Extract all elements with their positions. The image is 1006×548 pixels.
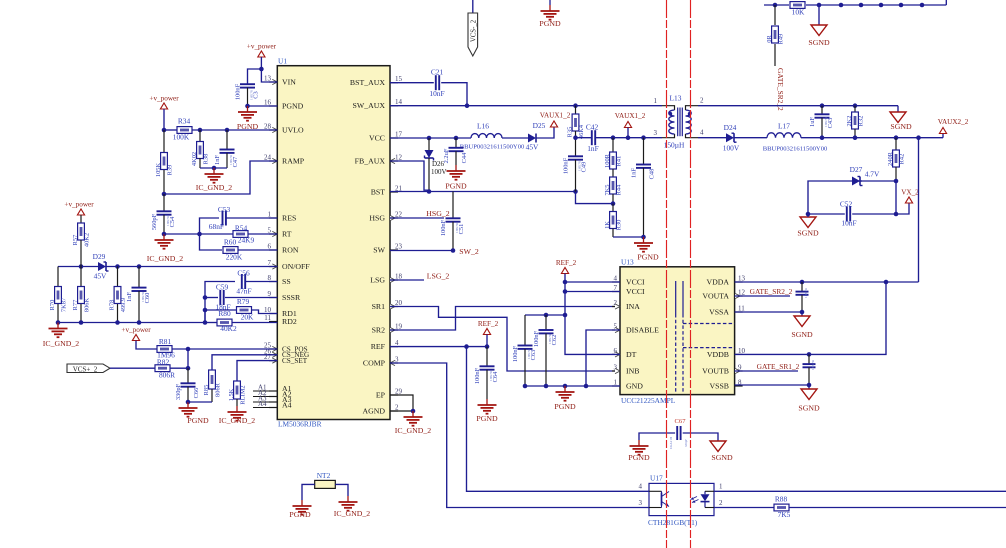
svg-text:IC_GND_2: IC_GND_2 [147,254,183,263]
svg-text:R57: R57 [72,234,79,245]
node C62 top [544,313,549,318]
svg-text:C56: C56 [237,269,250,278]
wire D25-VAUX1 [537,127,555,138]
U1 pin stubs [269,82,398,411]
svg-text:220K: 220K [226,253,243,262]
svg-text:1HX7R: 1HX7R [489,370,493,381]
wire pin2 to SGND [897,106,899,112]
svg-text:2K2: 2K2 [846,115,853,126]
resistor R48 10K [790,2,805,17]
svg-text:RD2: RD2 [282,317,297,326]
svg-text:SR2: SR2 [372,325,386,334]
svg-text:330pF: 330pF [684,439,688,447]
power +v_power (R57) [64,201,94,216]
resistor R42 240R [887,138,906,181]
node sec4 R42 [894,135,899,140]
svg-text:C53: C53 [218,205,231,214]
svg-text:13: 13 [264,75,272,83]
node VDDA branch [884,280,889,285]
node VSSB [807,383,812,388]
svg-text:GATE_SR1_2: GATE_SR1_2 [757,362,800,371]
svg-text:18: 18 [395,273,403,281]
isolation line 1 [666,0,668,548]
ground SGND (ladder) [808,5,830,47]
capacitor C47 1nF [214,130,239,168]
wire RES riser [200,218,220,234]
isolation line 2 [690,0,692,548]
node VDDB C68 [807,352,812,357]
svg-text:C60: C60 [144,293,151,304]
svg-text:INB: INB [626,366,639,375]
svg-text:15: 15 [395,75,403,83]
wire VOUTA stub [735,295,790,297]
svg-text:45V: 45V [94,272,107,281]
svg-text:C66: C66 [193,388,200,399]
op-amp U13 body UCC21225AMPL [620,258,735,406]
svg-text:R39: R39 [167,165,174,176]
svg-text:VOUTB: VOUTB [702,366,729,375]
svg-text:1: 1 [614,379,618,387]
wire U13 gnd row [525,385,620,387]
svg-text:+v_power: +v_power [64,201,94,209]
node rail SS [203,320,208,325]
svg-text:40K2: 40K2 [84,233,91,247]
capacitor C54 560pF [151,194,176,234]
svg-text:100R: 100R [604,153,611,168]
svg-text:IC_GND_2: IC_GND_2 [334,509,370,518]
node gnd sym [563,384,568,389]
power VAUX2_2 [938,118,969,134]
svg-text:100nF: 100nF [440,219,447,236]
svg-text:40K2: 40K2 [220,324,237,333]
node BST C49 [573,189,578,194]
svg-text:SW_AUX: SW_AUX [353,101,386,110]
svg-text:22: 22 [395,211,403,219]
diode D26 100V [425,138,447,192]
svg-text:10: 10 [738,347,746,355]
node rail R78 [115,320,120,325]
wire rail-R80 [204,310,206,323]
svg-text:1HX7R: 1HX7R [824,116,828,127]
node SWAUX C21 [465,103,470,108]
svg-text:SW_2: SW_2 [459,247,479,256]
svg-text:VAUX1_2: VAUX1_2 [615,112,646,120]
ground PGND (pin16) [237,106,259,131]
svg-text:VIN: VIN [282,77,296,86]
node REF2 caps [563,313,568,318]
node VAUX1 R41 [611,135,616,140]
wire C66-R85 gnd link [188,401,212,403]
node SWAUX R35 [573,103,578,108]
ground PGND (U13) [554,386,576,411]
svg-text:24: 24 [264,154,272,162]
svg-text:PGND: PGND [628,453,650,462]
node R81 out [186,347,191,352]
capacitor C21 10nF [390,68,467,106]
wire SS branch [205,282,235,323]
node onoff R78 [115,264,120,269]
svg-text:PGND: PGND [476,414,498,423]
svg-text:R78: R78 [109,300,116,311]
svg-text:SGND: SGND [890,122,912,131]
svg-text:INA: INA [626,302,640,311]
capacitor C48 1nF [631,138,656,237]
svg-text:REF_2: REF_2 [478,320,499,328]
wire caps top [525,314,565,316]
label LSG_2 [427,272,450,281]
svg-text:VCCI: VCCI [626,287,645,296]
svg-text:RAMP: RAMP [282,156,305,165]
node REF2 b [563,289,568,294]
svg-text:VOUTA: VOUTA [702,291,729,300]
wire to VIN pin13 [261,69,277,82]
svg-text:C51: C51 [458,224,465,235]
svg-text:IC_GND_2: IC_GND_2 [43,339,79,348]
ground IC_GND_2 (rail) [43,323,79,349]
svg-text:C63: C63 [530,350,537,361]
capacitor C64 100nF [474,347,499,399]
svg-text:COMP: COMP [363,358,386,367]
svg-text:10K: 10K [792,8,805,17]
svg-text:1HX7R: 1HX7R [455,222,459,233]
wire sec pin4 row [801,134,943,138]
svg-text:D25: D25 [533,121,546,130]
diode D29 45V [93,252,109,281]
wire ON/OFF row [58,266,277,268]
svg-text:16: 16 [264,99,272,107]
wire SW row [390,250,453,252]
optocoupler U17 CTH281GB(T1) [648,474,714,528]
node gnd C62 [544,384,549,389]
node onoff C60 [137,264,142,269]
node R42 D27 [894,179,899,184]
svg-text:C47: C47 [232,156,239,167]
svg-text:100nF: 100nF [474,367,481,384]
wire +v_power down [163,109,165,130]
svg-text:7K87: 7K87 [61,297,68,312]
resistor R34 100K [164,117,277,142]
svg-text:A4: A4 [282,400,292,409]
node C66 gnd [186,400,191,405]
pin1 label L13 [654,97,658,105]
capacitor C49 100nF [563,138,588,192]
capacitor C62 100nF [533,315,558,386]
label GATE_SR2_2 (vertical) [776,68,785,111]
wire VCCI pin7 [565,291,620,293]
svg-text:C43: C43 [827,118,834,129]
svg-text:SR1: SR1 [372,302,386,311]
svg-text:1nF: 1nF [126,292,133,302]
svg-text:VAUX2_2: VAUX2_2 [938,118,969,126]
svg-text:VSSB: VSSB [709,381,729,390]
ground SGND (sec) [890,112,912,131]
svg-text:5: 5 [268,227,272,235]
svg-text:VX_2: VX_2 [901,189,919,197]
capacitor C43 1uF [809,106,834,138]
svg-text:100V: 100V [431,168,447,176]
svg-text:PGND: PGND [637,253,659,262]
ground SGND (C67) [710,441,733,462]
wire L16-D25 [502,137,528,139]
svg-text:240R: 240R [887,151,894,166]
svg-text:PGND: PGND [445,182,467,191]
svg-text:3: 3 [654,129,658,137]
svg-text:EP: EP [376,390,386,399]
wire VX_2 stub [896,203,909,214]
svg-text:100V: 100V [723,144,740,153]
node sec4 R32 [853,135,858,140]
node R82 out [186,366,191,371]
svg-text:1: 1 [654,97,658,105]
flag VCS-_2 (top) [468,0,478,56]
svg-text:1HX7R: 1HX7R [804,287,808,298]
node gnd dis [584,384,589,389]
node REF vert [464,344,469,349]
svg-text:RES: RES [282,213,296,222]
svg-text:R54: R54 [235,224,248,233]
pin4 label L13 [700,129,704,137]
svg-text:6: 6 [268,243,272,251]
svg-text:4K02: 4K02 [191,152,198,166]
svg-text:UCC21225AMPL: UCC21225AMPL [621,396,676,405]
svg-text:NT2: NT2 [317,471,331,480]
node VDDA C65 [800,280,805,285]
svg-text:47nF: 47nF [236,287,251,296]
resistor R57 40K2 [72,215,91,267]
svg-text:C64: C64 [492,371,499,382]
svg-text:0R: 0R [766,35,773,43]
svg-text:SGND: SGND [797,229,819,238]
power +v_power (UVLO divider) [149,95,179,110]
svg-text:R34: R34 [178,117,191,126]
svg-text:7: 7 [614,284,618,292]
svg-text:330pF: 330pF [175,383,182,400]
node onoff R77 [79,264,84,269]
node REF C64 [485,344,490,349]
wire SW_AUX row [390,105,662,107]
wire sec pin2 row [698,105,898,107]
svg-text:20: 20 [395,299,403,307]
capacitor C51 100nF [440,192,465,251]
label GATE_SR1_2 [757,362,800,371]
label SW_2 [459,247,479,256]
ground SGND (VSSB) [798,385,820,413]
node sec4 C43 [820,135,825,140]
svg-text:C44: C44 [461,152,468,163]
power REF_2 (U13) [556,259,577,282]
node rail R70 [56,320,61,325]
svg-text:GATE_SR2_2: GATE_SR2_2 [750,287,793,296]
svg-text:10nF: 10nF [841,219,856,228]
ground IC_GND_2 (RLIM2) [219,406,255,425]
svg-text:C67: C67 [675,418,687,425]
resistor RLIM2 1.5K [228,381,247,406]
capacitor C52 10nF [808,200,896,228]
node VAUX1 C48 [641,135,646,140]
svg-text:+v_power: +v_power [149,95,179,103]
node VSSA [800,310,805,315]
svg-text:2: 2 [719,499,723,507]
wire VDDB branch [735,282,886,354]
capacitor C56 47nF [236,269,277,296]
node rail C60 [137,320,142,325]
svg-text:7K5: 7K5 [778,510,791,519]
svg-text:C48: C48 [649,169,656,180]
svg-text:C54: C54 [169,216,176,227]
svg-text:BBUP00321611500Y00: BBUP00321611500Y00 [763,146,828,153]
resistor R49 0R [766,5,785,66]
resistor R82 806R [110,357,188,379]
capacitor C63 100nF [512,315,537,386]
wire BST row2 [453,191,576,193]
svg-text:1HX7R: 1HX7R [250,89,254,100]
wire D27 left leg [808,181,852,214]
svg-text:28: 28 [264,123,272,131]
svg-text:1HX7R: 1HX7R [578,160,582,171]
resistor R54 24K9 [200,224,278,245]
svg-text:RLIM2: RLIM2 [240,385,247,404]
wire REF row [390,346,487,348]
power VAUX1_2 (a) [540,112,571,128]
svg-text:100nF: 100nF [512,345,519,362]
ground IC_GND_2 (C54) [147,234,183,263]
svg-text:ON/OFF: ON/OFF [282,262,310,271]
wire opto pin2 out [714,507,774,509]
svg-text:R42: R42 [899,154,906,165]
svg-text:RON: RON [282,245,299,254]
wire EP-AGND [390,395,413,411]
node SSSR [203,295,208,300]
svg-text:L16: L16 [477,122,489,131]
svg-text:SGND: SGND [808,38,830,47]
resistor R39 105K [155,130,174,194]
svg-text:IC_GND_2: IC_GND_2 [219,416,255,425]
resistor R79 20K [205,297,277,322]
svg-text:100nF: 100nF [563,157,570,174]
wire REF to opto pin4 [467,347,650,492]
ground PGND (C48) [634,237,659,262]
svg-text:VCS-_2: VCS-_2 [470,19,477,42]
resistor R85 806R [203,370,222,402]
svg-text:R80: R80 [218,309,231,318]
resistor R35 46K4 [567,106,586,139]
wire R42-C52 [895,181,897,214]
svg-text:SGND: SGND [791,330,813,339]
svg-text:HSG_2: HSG_2 [426,209,449,218]
node AGND [411,409,416,414]
U1 pin numbers [264,75,403,412]
node C52 gnd [806,212,811,217]
svg-text:REF_2: REF_2 [556,259,577,267]
node sec C43 [820,103,825,108]
wire VDDA row [735,281,919,283]
wire LSG stub [390,279,424,281]
capacitor C65 100nF [796,282,809,312]
node gnd C63 [523,384,528,389]
wire BST jog to R44 [576,192,614,204]
svg-text:10nF: 10nF [429,89,444,98]
op-amp U1 body LM5036RJBR [277,57,390,429]
wire REF2 down [564,282,566,315]
svg-text:R70: R70 [49,300,56,311]
svg-text:HSG: HSG [369,213,385,222]
ground IC_GND_2 (NT2) [334,496,370,518]
wire to C3 [248,69,262,84]
node UVLO a [162,128,167,133]
svg-text:PGND: PGND [289,510,311,519]
pin3 label L13 [654,129,658,137]
svg-text:68nF: 68nF [209,222,224,231]
ground PGND (C66) [179,402,209,425]
node RD1 [203,308,208,313]
capacitor C3 100nF [235,83,260,106]
svg-text:1.5K: 1.5K [228,388,235,401]
svg-text:REF: REF [371,342,386,351]
svg-text:BST: BST [371,187,386,196]
U1 pins A1-A4 stubs [253,384,277,409]
svg-text:GND: GND [626,381,643,390]
ground IC_GND_2 (AGND) [395,411,431,435]
svg-text:D29: D29 [93,252,106,261]
flag VCS+_2 [67,364,110,374]
wire CS_NEG down [212,355,277,370]
svg-text:806K: 806K [84,298,91,313]
svg-text:R32: R32 [858,116,865,127]
resistor R81 1M96 [136,337,277,360]
U13 isolation lines [676,281,735,393]
resistor R32 2K2 [846,106,865,138]
svg-text:806R: 806R [159,371,175,380]
svg-text:105K: 105K [155,163,162,178]
svg-text:C42: C42 [586,123,599,132]
svg-text:2.2uF: 2.2uF [443,148,450,163]
svg-text:4: 4 [395,339,399,347]
resistor R70 7K87 [49,267,68,323]
svg-text:1HX7R: 1HX7R [548,333,552,344]
power VAUX1_2 (b) [615,112,646,138]
power +v_power (U1 VIN) [247,43,277,58]
svg-text:IC_GND_2: IC_GND_2 [196,183,232,192]
node VAUX1 net [573,135,578,140]
U17 pin numbers [639,483,724,507]
nodes top ladder [773,3,925,8]
capacitor C59 18nF [215,283,230,312]
node PGND pin16 [245,104,250,109]
svg-text:AGND: AGND [362,406,385,415]
resistor R30 1K [604,204,623,237]
power +v_power (R81) [121,326,151,341]
node C48 gnd [641,235,646,240]
svg-text:17: 17 [395,131,403,139]
svg-text:29: 29 [395,388,403,396]
svg-text:LM5036RJBR: LM5036RJBR [278,420,322,429]
wire VCCI pin4 [565,281,620,283]
svg-text:2: 2 [700,97,704,105]
svg-text:L13: L13 [670,94,682,103]
svg-text:R81: R81 [159,337,172,346]
svg-text:C59: C59 [216,283,229,292]
ground SGND (VSSA) [791,312,813,339]
pin2 label L13 [700,97,704,105]
svg-text:45V: 45V [526,143,539,152]
svg-text:1nF: 1nF [631,168,638,178]
svg-text:VDDA: VDDA [706,277,729,286]
inductor L17 [763,122,828,153]
svg-text:CGA21H: CGA21H [669,436,673,449]
node sec R32 [853,103,858,108]
wire DISABLE [586,330,620,386]
svg-text:R41: R41 [616,156,623,167]
